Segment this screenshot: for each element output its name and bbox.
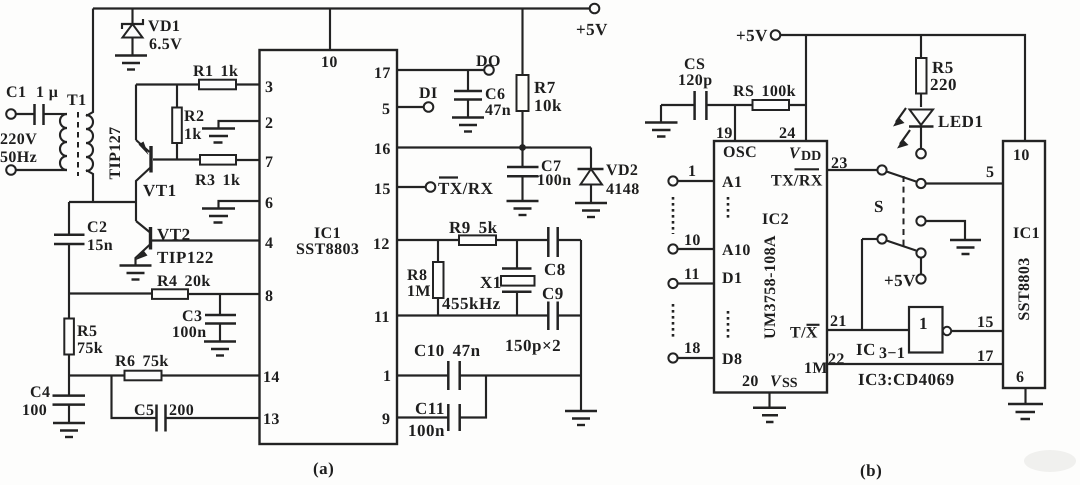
wire pin11 line [397,314,548,316]
ground pin2 [202,121,260,143]
resistor R2 [172,85,204,160]
svg-text:X1: X1 [480,273,502,292]
svg-text:6.5V: 6.5V [149,36,182,53]
wire output node [69,201,136,203]
capacitor C8 [544,227,581,279]
svg-text:R1 1k: R1 1k [193,63,238,80]
svg-text:100n: 100n [408,421,445,440]
svg-text:C9: C9 [542,284,564,303]
terminal pin18 [668,340,714,363]
svg-text:C6: C6 [485,86,505,103]
svg-text:TIP127: TIP127 [107,126,124,179]
svg-text:1M: 1M [804,360,828,377]
wire pin14 line [69,374,260,376]
svg-text:S: S [874,197,884,216]
svg-text:+5V: +5V [884,271,916,290]
ground under C4 [53,423,85,437]
svg-text:200: 200 [169,402,194,419]
ground left of CS [645,105,678,137]
svg-text:T/X: T/X [790,325,818,342]
capacitor C11 [408,376,486,441]
switch middle contact to ground [916,216,981,254]
resistor R4 [152,273,260,299]
ground under C6 [452,118,484,132]
switch gang dashed link [903,176,905,248]
svg-text:R6 75k: R6 75k [115,353,169,370]
wire pin5 to DI [397,106,424,108]
svg-text:220: 220 [930,75,957,94]
capacitor C6 [454,70,511,119]
wire C2 to R4 node [69,292,152,294]
svg-text:SST8803: SST8803 [1016,257,1033,320]
svg-text:15n: 15n [87,237,113,254]
svg-text:C3: C3 [182,308,202,325]
resistor R3 [153,155,260,189]
terminal pin10 [668,232,714,254]
dotted line terminals lower [672,304,675,338]
svg-text:6: 6 [265,195,273,212]
svg-text:7: 7 [265,154,273,171]
capacitor C9 [542,284,581,330]
switch S top pole [827,165,926,216]
svg-text:VD2: VD2 [606,162,638,179]
svg-text:10: 10 [1013,147,1030,164]
svg-text:SST8803: SST8803 [296,241,359,258]
svg-text:9: 9 [382,411,390,428]
svg-text:23: 23 [831,155,848,172]
inverter gate IC3-1 [856,307,1003,362]
svg-text:R7: R7 [534,78,556,97]
wire pin9 line [397,416,448,418]
svg-text:19: 19 [716,125,733,142]
ground under VD1 [115,56,147,70]
svg-text:V: V [789,145,801,162]
svg-text:IC3:CD4069: IC3:CD4069 [858,370,955,389]
svg-text:10k: 10k [534,96,562,115]
wire pin21 line [827,329,909,331]
svg-text:OSC: OSC [723,144,757,161]
svg-text:47n: 47n [485,102,511,119]
crystal X1 455kHz [442,240,535,316]
svg-text:150p×2: 150p×2 [505,336,561,355]
terminal LED cathode [916,149,926,159]
wire pin17 to DO [397,69,484,71]
svg-text:T1: T1 [67,92,86,109]
svg-text:1M: 1M [407,283,431,300]
capacitor C4 [22,376,85,424]
ground under C3 [204,342,236,356]
svg-text:4148: 4148 [606,181,640,198]
svg-text:21: 21 [830,313,847,330]
svg-text:C11: C11 [415,399,445,418]
wire pin10 lead [329,9,331,51]
svg-text:A10: A10 [722,242,751,259]
terminal pin11 [668,266,714,288]
svg-text:24: 24 [779,125,796,142]
svg-text:R4 20k: R4 20k [157,273,211,290]
capacitor C2 [54,202,113,294]
svg-text:6: 6 [1016,369,1024,386]
ground pin6 [202,201,260,223]
LED1 [893,108,983,149]
ground under VT2 [120,266,152,280]
wire top +5V rail [93,7,589,9]
svg-text:D1: D1 [722,270,742,287]
svg-text:14: 14 [263,369,280,386]
svg-text:C5: C5 [134,402,154,419]
svg-text:CS: CS [684,56,705,73]
terminal DO [476,53,501,75]
capacitor C3 [172,294,236,342]
svg-text:15: 15 [374,181,391,198]
wire pin12 line [397,239,548,241]
svg-text:UM3758-108A: UM3758-108A [762,235,779,339]
svg-text:1: 1 [688,163,696,180]
dotted line inside IC2 lower [727,311,730,339]
terminal DI [419,85,438,112]
svg-text:LED1: LED1 [938,112,983,131]
svg-text:2: 2 [265,115,273,132]
svg-text:C10 47n: C10 47n [414,341,481,360]
dotted line inside IC2 upper [727,197,730,221]
svg-text:1k: 1k [184,126,202,143]
svg-text:3: 3 [265,79,273,96]
wire right vertical to ground [580,240,582,411]
resistor R5 (b) [916,35,957,107]
resistor R5 [64,294,103,376]
svg-text:IC1: IC1 [314,225,341,242]
svg-text:100: 100 [22,402,47,419]
svg-text:TX/RX: TX/RX [438,179,494,198]
IC1 SST8803 box (b) [1003,141,1045,388]
wire pin15 to TX/RX [397,186,426,188]
ground bottom right (a) [565,411,597,425]
svg-text:17: 17 [977,348,994,365]
svg-text:C2: C2 [87,219,107,236]
transistor VT1 TIP127 [107,85,177,222]
transistor VT2 TIP122 [135,221,260,267]
svg-text:100n: 100n [172,324,207,341]
svg-text:+5V: +5V [576,20,608,39]
diode VD2 4148 [578,148,640,204]
svg-text:DD: DD [801,149,821,164]
svg-text:17: 17 [374,65,391,82]
dotted line terminals upper [672,197,675,234]
svg-text:VD1: VD1 [148,18,180,35]
ground under IC2 VSS [753,393,786,423]
switch S bottom pole [862,234,926,290]
svg-text:VT2: VT2 [157,225,191,244]
svg-text:R9 5k: R9 5k [449,218,498,237]
wire +5V rail (b) [780,35,1025,141]
wire +5V drop to RS/pin24 [805,35,807,141]
svg-text:13: 13 [263,411,280,428]
svg-text:75k: 75k [77,340,103,357]
resistor RS [733,83,806,110]
faint scan smudge [1024,450,1076,472]
terminal AC bottom [6,165,16,175]
svg-text:IC: IC [856,340,876,359]
wire pin22 line [827,363,1003,365]
svg-text:1 μ: 1 μ [36,84,58,101]
svg-text:C4: C4 [30,384,50,401]
svg-text:455kHz: 455kHz [442,294,501,313]
wire pin19 lead [734,105,736,141]
resistor R6 [115,353,169,380]
svg-text:5: 5 [986,164,994,181]
terminal TX/RX [426,178,494,199]
svg-text:5: 5 [382,101,390,118]
svg-text:18: 18 [684,340,701,357]
wire bottom pole down to inverter input [861,239,863,330]
svg-text:C1: C1 [6,84,26,101]
transformer T1 [16,9,93,203]
terminal +5V (a) [576,4,608,39]
label 220V 50Hz [0,131,37,166]
capacitor C10 [414,341,581,390]
svg-text:1: 1 [919,314,928,333]
svg-text:IC2: IC2 [762,211,789,228]
svg-text:10: 10 [321,54,338,71]
capacitor C7 [507,148,572,202]
terminal pin1 [668,163,714,186]
svg-text:DO: DO [476,53,501,70]
svg-text:15: 15 [977,314,994,331]
capacitor C5 and branch [112,376,260,432]
node junction dot [519,144,526,151]
ground under IC1 (b) [1008,388,1043,419]
svg-text:8: 8 [265,288,273,305]
svg-text:R3 1k: R3 1k [195,172,240,189]
svg-text:11: 11 [684,266,700,283]
svg-text:R2: R2 [184,108,204,125]
IC2 UM3758-108A box [714,141,828,393]
ground under C7 [507,201,539,215]
svg-text:+5V: +5V [736,26,768,45]
resistor R7 [517,9,563,148]
svg-text:C8: C8 [544,260,566,279]
svg-text:A1: A1 [722,174,742,191]
capacitor CS [661,56,753,120]
svg-text:R5: R5 [77,323,97,340]
svg-text:22: 22 [828,351,845,368]
svg-text:100n: 100n [537,172,572,189]
svg-text:(b): (b) [860,461,882,480]
svg-text:3−1: 3−1 [879,345,905,362]
svg-text:DI: DI [419,85,438,102]
ground under VD2 [575,203,607,217]
svg-text:16: 16 [374,141,391,158]
resistor R8 [407,240,444,316]
wire pin16 line [397,146,591,148]
svg-text:11: 11 [374,309,390,326]
zener VD1 [122,9,182,56]
terminal AC top [6,109,16,119]
svg-text:20: 20 [742,373,759,390]
svg-text:RS 100k: RS 100k [733,83,796,100]
IC IC1 SST8803 box (a) [260,50,398,444]
svg-text:220V: 220V [0,131,37,148]
svg-text:1: 1 [383,368,391,385]
svg-text:D8: D8 [722,351,742,368]
svg-text:TIP122: TIP122 [157,248,214,267]
svg-text:10: 10 [684,232,701,249]
svg-text:V: V [770,373,782,390]
svg-text:50Hz: 50Hz [0,149,37,166]
svg-text:R8: R8 [407,267,427,284]
svg-text:TX/RX: TX/RX [771,173,823,190]
svg-text:VT1: VT1 [143,181,177,200]
terminal +5V (b) [736,26,780,45]
wire pin1 line [397,374,448,376]
resistor R9 [449,218,498,245]
svg-text:IC1: IC1 [1013,225,1040,242]
svg-text:(a): (a) [313,459,334,478]
wire switch to pin5 IC1 [926,182,1003,184]
svg-text:120p: 120p [678,72,713,89]
svg-text:SS: SS [782,376,798,391]
capacitor C1 [6,84,60,125]
svg-text:4: 4 [265,235,273,252]
resistor R1 [136,63,260,89]
svg-text:12: 12 [373,236,390,253]
